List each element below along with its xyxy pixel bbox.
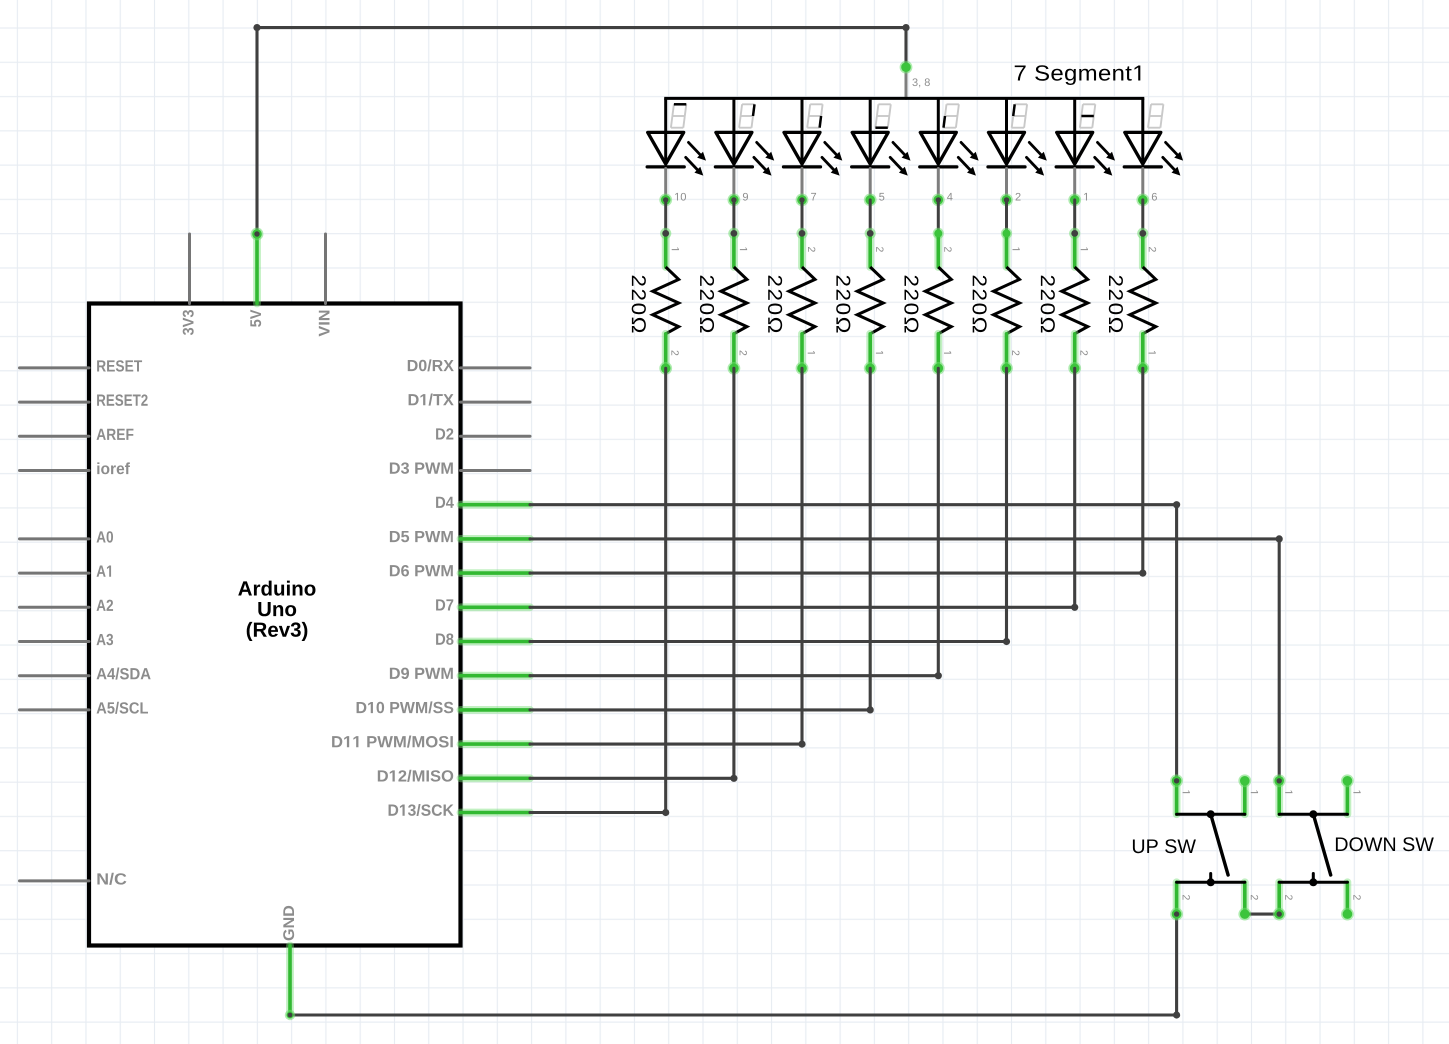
pin RESET bbox=[20, 360, 143, 371]
resistor R8 220&#937; bbox=[1109, 228, 1156, 375]
resistor R2 220&#937; bbox=[700, 228, 747, 375]
pushbutton UP SW bbox=[1133, 774, 1258, 920]
pin D6 PWM bbox=[390, 565, 530, 576]
LED segment B (7-seg pin 9) bbox=[715, 98, 774, 206]
wire LED pin 9 to resistor R2 bbox=[732, 200, 735, 234]
LED segment D (7-seg pin 5) bbox=[852, 98, 911, 206]
wire R8 to D6 bbox=[530, 368, 1146, 576]
wire LED pin 10 to resistor R1 bbox=[664, 200, 667, 234]
LED segment A (7-seg pin 10) bbox=[647, 98, 706, 206]
resistor R7 220&#937; bbox=[1041, 228, 1088, 375]
pin D9 PWM bbox=[390, 668, 530, 679]
pin D13/SCK bbox=[389, 804, 530, 816]
wire R6 to D8 bbox=[530, 368, 1010, 645]
pin D2 bbox=[436, 428, 530, 439]
7-segment common anode bus bbox=[666, 97, 1143, 100]
node 5V pin end bbox=[251, 228, 264, 241]
LED segment G (7-seg pin 1) bbox=[1056, 98, 1115, 206]
pin D0/RX bbox=[408, 359, 530, 371]
pin ioref bbox=[20, 462, 130, 474]
pin D12/MISO bbox=[378, 770, 530, 782]
pin GND bbox=[283, 906, 294, 1015]
pin 5V bbox=[250, 234, 261, 327]
pin N/C bbox=[20, 873, 127, 885]
wire R3 to D11 bbox=[530, 368, 806, 747]
wire R1 to D13 bbox=[530, 368, 669, 816]
pin D11 PWM/MOSI bbox=[332, 736, 530, 748]
wire D4 to UP SW pin 1 bbox=[530, 501, 1180, 781]
wire LED pin 2 to resistor R6 bbox=[1005, 200, 1008, 234]
LED segment F (7-seg pin 2) bbox=[988, 98, 1047, 206]
wire LED pin 6 to resistor R8 bbox=[1141, 200, 1144, 234]
pin A4/SDA bbox=[20, 668, 151, 680]
node 7-segment common pin 3,8 bbox=[900, 61, 930, 99]
LED segment C (7-seg pin 7) bbox=[784, 98, 843, 206]
pin D1/TX bbox=[409, 394, 530, 406]
LED segment E (7-seg pin 4) bbox=[920, 98, 979, 206]
LED decimal point (7-seg pin 6) bbox=[1124, 98, 1183, 206]
wire LED pin 5 to resistor R4 bbox=[869, 200, 872, 234]
wire 5V to 7-segment common (pins 3,8) bbox=[253, 24, 909, 234]
pin 3V3 bbox=[183, 234, 194, 335]
pin D5 PWM bbox=[390, 531, 530, 542]
pin A5/SCL bbox=[20, 702, 149, 714]
wire R2 to D12 bbox=[530, 368, 738, 782]
wire LED pin 1 to resistor R7 bbox=[1073, 200, 1076, 234]
wire GND to UP SW pin 2 bbox=[285, 914, 1180, 1020]
resistor R4 220&#937; bbox=[836, 228, 883, 375]
pin A1 bbox=[20, 566, 112, 577]
pin RESET2 bbox=[20, 394, 148, 405]
pin D7 bbox=[436, 599, 530, 610]
wire R5 to D9 bbox=[530, 368, 942, 679]
wire D5 to DOWN SW pin 1 bbox=[530, 535, 1283, 780]
resistor R1 220&#937; bbox=[632, 228, 679, 375]
pin D3 PWM bbox=[390, 462, 530, 473]
label Arduino Uno (Rev3) bbox=[238, 581, 315, 641]
label 7 Segment1 bbox=[1015, 65, 1141, 85]
resistor R3 220&#937; bbox=[768, 228, 815, 375]
pin A2 bbox=[20, 600, 114, 611]
pin VIN bbox=[319, 234, 330, 336]
pin A3 bbox=[20, 634, 114, 645]
wire LED pin 4 to resistor R5 bbox=[937, 200, 940, 234]
resistor R5 220&#937; bbox=[904, 228, 951, 375]
wire R4 to D10 bbox=[530, 368, 874, 713]
pushbutton DOWN SW bbox=[1273, 774, 1434, 920]
pin A0 bbox=[20, 531, 114, 542]
resistor R6 220&#937; bbox=[973, 228, 1020, 375]
wire LED pin 7 to resistor R3 bbox=[801, 200, 804, 234]
wire UP SW pin 2 to DOWN SW pin 2 bbox=[1245, 910, 1283, 918]
pin AREF bbox=[20, 429, 134, 440]
pin D8 bbox=[436, 633, 530, 644]
pin D10 PWM/SS bbox=[357, 701, 530, 713]
pin D4 bbox=[436, 497, 530, 508]
Arduino Uno A1 body bbox=[89, 304, 461, 946]
wire R7 to D7 bbox=[530, 368, 1078, 611]
